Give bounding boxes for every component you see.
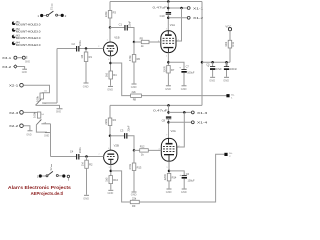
wire (feedback to speaker pad) [141, 95, 226, 97]
ground [131, 84, 137, 89]
ground [181, 189, 187, 194]
wire [110, 184, 112, 190]
svg-text:1k5: 1k5 [105, 72, 109, 77]
svg-text:X1-4: X1-4 [197, 121, 208, 125]
wire (screen grid riser to B+) [176, 8, 182, 41]
wire (P2 wiper to grid riser) [41, 123, 50, 125]
wire (V2B cathode) [110, 164, 112, 175]
svg-text:GND: GND [181, 190, 187, 194]
wire [169, 171, 184, 175]
svg-text:V1A: V1A [170, 23, 175, 27]
wire (P1 bottom to ground) [36, 104, 60, 108]
svg-text:100n: 100n [78, 40, 82, 46]
mounting hole H4 [12, 41, 41, 47]
svg-text:100n: 100n [78, 147, 82, 153]
wire (screen grid riser lower to B+) [177, 112, 185, 147]
wire [110, 27, 124, 29]
node [85, 155, 88, 158]
switch S1 [37, 4, 66, 19]
node (grid junction V2A) [133, 149, 136, 152]
svg-text:X2-2: X2-2 [9, 124, 19, 128]
wire [168, 62, 184, 69]
connector pin X2-1 [9, 83, 23, 87]
pad (upper speaker terminal) [226, 94, 234, 99]
wire [128, 28, 134, 43]
svg-text:C2: C2 [72, 42, 76, 46]
svg-text:22k: 22k [132, 197, 137, 201]
svg-text:R7: R7 [171, 68, 175, 72]
ground [223, 77, 229, 82]
svg-text:V1B: V1B [114, 36, 119, 40]
svg-text:470k: 470k [128, 163, 132, 169]
ground [165, 86, 171, 91]
resistor R13 470k (grid leak lower) [128, 150, 142, 191]
node (anode/X1-4 junction) [167, 121, 170, 124]
svg-text:GND: GND [223, 79, 229, 83]
svg-text:Alan's Electronic Projects: Alan's Electronic Projects [8, 185, 71, 190]
wire [23, 85, 49, 93]
svg-text:GND: GND [209, 79, 215, 83]
node [180, 7, 183, 10]
triode V2B [98, 143, 119, 169]
svg-text:220k: 220k [104, 11, 108, 17]
ground [181, 86, 187, 91]
ground [209, 77, 215, 82]
svg-text:R3: R3 [113, 11, 117, 15]
capacitor C9 100nF [224, 62, 238, 77]
svg-text:220k: 220k [104, 118, 108, 124]
wire (V2B anode lead) [109, 136, 111, 150]
capacitor C5 47uF [206, 62, 222, 77]
svg-text:V2B: V2B [114, 143, 119, 147]
node [167, 111, 170, 114]
supply pin VCC [225, 24, 231, 40]
resistor R3 220k [104, 11, 117, 19]
node [167, 61, 170, 64]
svg-text:GND: GND [44, 136, 49, 138]
svg-text:GND: GND [131, 85, 137, 89]
svg-text:X3-2: X3-2 [2, 65, 12, 69]
svg-text:C8: C8 [162, 118, 166, 122]
svg-text:3R3: 3R3 [224, 41, 228, 46]
svg-text:0,47uF: 0,47uF [153, 6, 168, 10]
svg-text:R4: R4 [113, 118, 117, 122]
ground [83, 195, 89, 200]
resistor R8 22k (feedback upper) [131, 90, 142, 101]
resistor R1 1M [80, 52, 93, 62]
node (anode junction V2B) [109, 135, 112, 138]
node [201, 61, 204, 64]
resistor R11 3R3 [224, 40, 235, 62]
capacitor C6 100uF [179, 173, 195, 189]
wire (feedback to speaker pad lower) [139, 154, 224, 202]
svg-text:0,47uF: 0,47uF [153, 109, 168, 113]
svg-text:R11: R11 [231, 41, 235, 46]
wire (lower B+ rail) [110, 104, 202, 106]
connector pin X3-1 [2, 56, 30, 64]
node [85, 47, 88, 50]
svg-text:V2A: V2A [171, 129, 176, 133]
ground [83, 83, 89, 89]
wire [85, 62, 87, 83]
svg-text:R1: R1 [89, 55, 93, 59]
ground [56, 109, 63, 114]
resistor R5 1k [140, 36, 149, 48]
wire [109, 2, 111, 11]
wire (grid wire lower) [51, 156, 77, 158]
wire [110, 79, 112, 86]
wire [86, 168, 88, 194]
svg-text:GND: GND [181, 87, 187, 91]
wire (feedback tap lower) [111, 171, 131, 202]
svg-text:R14: R14 [172, 176, 177, 180]
resistor R2 1M [80, 160, 93, 168]
svg-text:16-: 16- [229, 153, 232, 155]
capacitor C7 100uF [179, 65, 195, 85]
svg-text:GND: GND [131, 192, 137, 196]
svg-text:GND: GND [26, 135, 31, 137]
svg-text:100uF: 100uF [188, 180, 196, 183]
svg-text:100k: 100k [33, 111, 37, 117]
resistor R6 470k (grid leak) [128, 42, 141, 83]
wire (P1 wiper to grid riser) [42, 102, 57, 104]
svg-text:R2: R2 [89, 163, 93, 167]
wire (C8 branch from rail) [168, 105, 170, 114]
node (grid junction V1A) [133, 41, 136, 44]
capacitor C10 0.47uF [153, 6, 172, 18]
wire (to X1-3) [169, 111, 192, 113]
wire (V1A cathode) [167, 53, 169, 66]
resistor R4 1k5 [105, 71, 118, 79]
node [211, 61, 214, 64]
wire [109, 18, 111, 28]
wire [109, 105, 111, 118]
node [167, 7, 170, 10]
wire (V1B cathode) [110, 56, 112, 71]
wire (grid wire upper) [57, 48, 76, 50]
wire (anode to X1-2) [168, 17, 187, 19]
svg-text:GND: GND [22, 72, 27, 74]
svg-text:C4: C4 [70, 149, 74, 153]
svg-text:100k: 100k [35, 95, 39, 101]
svg-text:R8: R8 [133, 97, 137, 101]
capacitor C1 22nF [119, 20, 132, 30]
svg-text:1M: 1M [80, 55, 84, 59]
wire [23, 126, 30, 131]
node (rail / C10 branch) [167, 0, 170, 3]
wire [127, 136, 134, 151]
svg-text:X3-1: X3-1 [2, 56, 12, 60]
svg-text:GND: GND [56, 111, 61, 113]
wire (grid stopper row) [134, 41, 161, 43]
node (anode junction V1B) [109, 26, 112, 29]
wire (upper B+ rail) [110, 1, 202, 3]
wire (V2A cathode) [168, 161, 170, 173]
wire (V1B anode lead) [109, 28, 111, 43]
ground [26, 131, 32, 137]
pad (lower speaker terminal) [224, 153, 232, 158]
svg-text:100uF: 100uF [187, 72, 195, 75]
capacitor C3 22nF [120, 125, 131, 138]
svg-text:MOUNT-HOLE3.0: MOUNT-HOLE3.0 [16, 37, 41, 40]
svg-text:1M: 1M [80, 162, 84, 166]
wire [23, 111, 37, 113]
svg-text:GND: GND [166, 190, 172, 194]
resistor R10 1k5 [105, 176, 119, 184]
ground [107, 86, 113, 91]
resistor R9 22k (feedback lower) [130, 197, 139, 209]
svg-text:C3: C3 [120, 129, 124, 133]
wire [80, 156, 104, 158]
connector pin X1-1 [187, 6, 203, 10]
wire [109, 126, 111, 136]
wire [110, 135, 124, 137]
node (cathode junction) [110, 170, 113, 173]
svg-text:R6: R6 [137, 57, 141, 61]
wire (to X1-1) [168, 7, 187, 9]
svg-text:GND: GND [25, 61, 30, 63]
wire (grid riser lower) [50, 124, 52, 157]
svg-text:220R: 220R [162, 66, 166, 72]
wire (C8 to V2A top) [168, 119, 170, 139]
svg-text:X2-3: X2-3 [9, 111, 19, 115]
pentode V1A [158, 23, 180, 58]
wire (C10 branch from rail) [167, 2, 169, 12]
ground [44, 133, 50, 138]
wire (grid stopper row lower) [134, 149, 161, 151]
svg-text:R10: R10 [113, 178, 118, 182]
ground [22, 68, 27, 70]
potentiometer P1 [35, 90, 47, 105]
triode V1B [98, 36, 120, 61]
wire (P2 bottom to ground) [36, 125, 47, 132]
svg-text:GND: GND [83, 85, 89, 89]
wire (grid riser upper) [56, 49, 58, 104]
svg-text:22k: 22k [132, 90, 137, 94]
resistor R14 220R [163, 173, 177, 188]
svg-text:GND: GND [107, 88, 113, 92]
switch S2 [37, 164, 70, 181]
pentode V2A [158, 129, 180, 169]
wire [86, 157, 88, 161]
svg-text:R12: R12 [140, 145, 145, 149]
svg-text:220R: 220R [163, 174, 167, 180]
svg-text:MOUNT-HOLE3.0: MOUNT-HOLE3.0 [16, 30, 41, 33]
svg-text:C10: C10 [160, 14, 165, 18]
connector pin X1-3 [191, 111, 207, 115]
wire (C10 to V1A top) [167, 14, 169, 31]
svg-text:GND: GND [165, 87, 171, 91]
node (cathode junction) [109, 62, 112, 65]
connector pin X3-2 [2, 65, 27, 74]
ground [108, 190, 114, 195]
resistor R4 220k (lower anode) [104, 118, 117, 126]
mounting hole H3 [12, 35, 41, 41]
wire (supply row) [202, 61, 230, 63]
wire (anode to X1-4) [169, 121, 192, 123]
svg-text:R5: R5 [140, 36, 144, 40]
svg-text:16-: 16- [231, 94, 234, 96]
ground [166, 189, 172, 194]
svg-text:C1: C1 [119, 22, 123, 26]
svg-text:AEProjects.de.tl: AEProjects.de.tl [31, 191, 64, 196]
ground [131, 192, 137, 196]
connector pin X1-4 [191, 121, 207, 125]
capacitor C4 100nF [70, 147, 82, 160]
mounting hole H2 [12, 28, 41, 34]
svg-text:S2: S2 [49, 167, 53, 171]
svg-text:47uF: 47uF [216, 68, 222, 71]
wire (B+ distribution riser) [201, 2, 203, 106]
wire [17, 57, 22, 59]
svg-text:R4: R4 [113, 73, 117, 77]
mounting hole H1 [12, 21, 41, 27]
node (anode/X1-2 junction) [167, 17, 170, 20]
wire (feedback tap) [111, 63, 131, 96]
svg-text:GND: GND [83, 197, 89, 201]
node [183, 111, 186, 114]
svg-text:100nF: 100nF [230, 68, 238, 71]
capacitor C2 100nF [72, 40, 83, 52]
svg-text:22nF: 22nF [127, 125, 131, 131]
node [225, 61, 228, 64]
svg-text:R9: R9 [132, 204, 136, 208]
resistor R7 220R [162, 66, 175, 86]
potentiometer P2 [33, 111, 47, 124]
node (rail / C8 branch) [167, 104, 170, 107]
wire [85, 49, 87, 53]
svg-text:22nF: 22nF [128, 20, 132, 26]
svg-text:X1-3: X1-3 [197, 111, 208, 115]
wire [80, 48, 104, 50]
svg-text:MOUNT-HOLE3.0: MOUNT-HOLE3.0 [16, 44, 41, 47]
resistor R12 1k [140, 145, 149, 157]
svg-text:R13: R13 [137, 166, 142, 170]
svg-text:470k: 470k [128, 55, 132, 61]
connector pin X1-2 [187, 16, 203, 20]
node [168, 170, 171, 173]
connector pin X2-2 [9, 124, 23, 128]
svg-text:X2-1: X2-1 [9, 84, 19, 88]
svg-text:MOUNT-HOLE3.0: MOUNT-HOLE3.0 [16, 24, 41, 27]
svg-text:1k5: 1k5 [105, 177, 109, 182]
wire [17, 67, 24, 69]
capacitor C8 0.47uF [153, 109, 171, 123]
connector pin X2-3 [9, 111, 23, 115]
svg-text:S1: S1 [50, 6, 54, 10]
svg-text:GND: GND [108, 191, 114, 195]
